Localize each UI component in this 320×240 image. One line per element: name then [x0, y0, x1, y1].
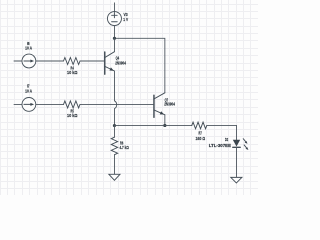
wire: left stub to I6 [14, 60, 22, 62]
svg-text:R7: R7 [199, 131, 203, 136]
svg-text:10 kΩ: 10 kΩ [67, 70, 78, 75]
svg-text:240 Ω: 240 Ω [196, 136, 206, 141]
wire: I6 to R4 [36, 60, 64, 62]
wire: R6 bottom lead to ground [113, 155, 115, 175]
resistor R4 [64, 58, 81, 65]
ground (left) [109, 174, 120, 180]
resistor R5 [64, 101, 81, 108]
svg-text:10 kΩ: 10 kΩ [67, 113, 78, 118]
wire: R7 to LED D2 [207, 125, 237, 139]
wire: left stub to I7 [14, 103, 22, 105]
node: Q4 emitter / R6 / output junction [113, 124, 116, 127]
svg-text:4.7 kΩ: 4.7 kΩ [120, 145, 130, 150]
ground (right) [231, 177, 242, 183]
svg-text:2N3904: 2N3904 [115, 61, 126, 66]
wire: LED cathode to ground [236, 147, 238, 177]
transistor Q7 [154, 93, 165, 117]
current source I6 [22, 54, 36, 68]
voltage source V3 [107, 3, 121, 39]
wire: Q4 emitter down with hop over I7 wire [114, 71, 116, 126]
svg-text:10 A: 10 A [25, 46, 33, 51]
wire: I7 to R5 [36, 103, 64, 105]
wire: R6 top lead [113, 126, 115, 138]
resistor R7 [192, 122, 207, 129]
node: Q7 emitter / output junction [163, 124, 166, 127]
node: V3 / Q4 collector / rail junction [113, 37, 116, 40]
current source I7 [22, 98, 36, 112]
LED D2 [233, 139, 249, 150]
svg-text:10 A: 10 A [25, 89, 33, 94]
transistor Q4 [105, 38, 115, 74]
svg-text:D2: D2 [225, 137, 229, 142]
wire: Q7 emitter down to output net [164, 115, 166, 126]
wire: output net junction to R7 [114, 125, 191, 127]
wire: R5 to Q7 base [80, 103, 153, 105]
svg-text:LTL-307EE: LTL-307EE [209, 143, 231, 148]
wire: R4 to Q4 base [80, 60, 104, 62]
wire: V+ rail from node to Q7 collector [114, 38, 164, 93]
svg-text:1 V: 1 V [123, 17, 128, 22]
svg-text:2N3904: 2N3904 [164, 102, 175, 107]
resistor R6 [111, 137, 117, 155]
